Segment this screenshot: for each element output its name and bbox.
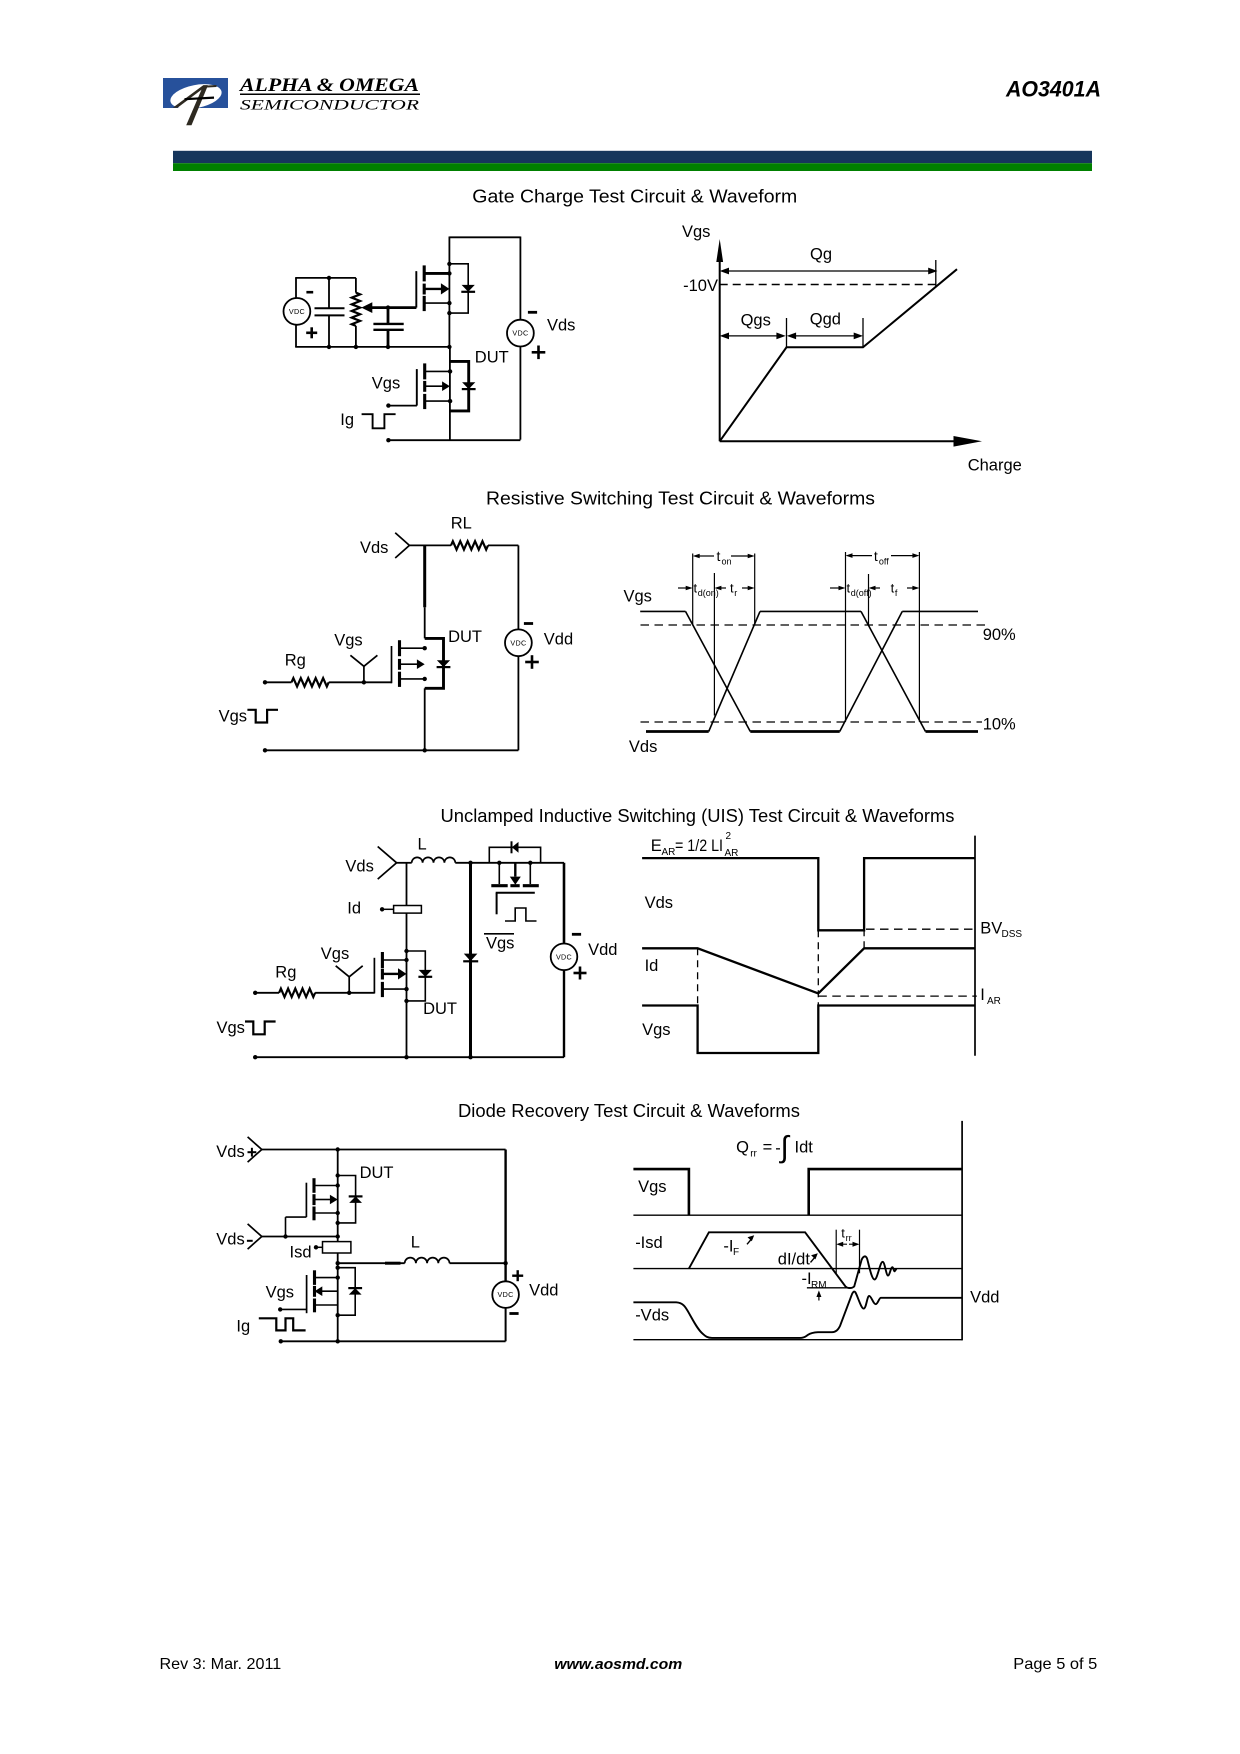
svg-text:Vgs: Vgs	[217, 1019, 245, 1037]
wire top loop fig1	[449, 236, 520, 238]
wire bottom rail fig1	[388, 439, 520, 441]
svg-text:Q: Q	[736, 1139, 749, 1157]
svg-text:Vds: Vds	[216, 1143, 244, 1161]
svg-text:Vgs: Vgs	[334, 631, 362, 649]
wire top fig2 right	[488, 544, 518, 546]
svg-text:DUT: DUT	[448, 628, 482, 646]
svg-text:Vdd: Vdd	[588, 941, 617, 959]
svg-text:Vgs: Vgs	[642, 1021, 670, 1039]
svg-text:t: t	[874, 548, 878, 564]
Vds axis fig4	[633, 1339, 962, 1341]
minus terminal of V1	[306, 291, 313, 294]
wire left rail bottom of V1	[295, 325, 297, 347]
wire gate of Q7	[280, 1308, 306, 1310]
right border fig4 waveform	[961, 1121, 963, 1341]
svg-text:DUT: DUT	[423, 1000, 457, 1018]
svg-text:Qgs: Qgs	[741, 312, 771, 330]
body diode of Q3 DUT fig2	[425, 638, 451, 688]
svg-text:-10V: -10V	[683, 277, 718, 295]
potentiometer R1	[352, 278, 360, 347]
t_r arrow	[742, 587, 749, 589]
node gate terminal Q7	[278, 1307, 282, 1311]
wire Q1 rail	[448, 237, 450, 347]
node bottom freewheel fig3	[468, 1055, 472, 1059]
wire DUT rail fig1	[449, 347, 451, 440]
inductor L fig4	[405, 1258, 450, 1264]
tick t3 fig2	[754, 554, 756, 625]
Vgs probe symbol fig3	[348, 977, 350, 993]
wire Q3 source to bottom	[424, 688, 426, 750]
svg-text:2: 2	[726, 831, 732, 842]
node Q7 diode top	[336, 1266, 340, 1270]
freewheel diode D1 branch	[463, 863, 478, 1057]
dashed marker x2 fig3	[817, 930, 819, 1005]
wire DUT drain rail fig3	[406, 863, 408, 1057]
wire left rail top of V1	[295, 278, 297, 298]
IRM arrow	[816, 1290, 821, 1300]
current probe Id box	[382, 906, 421, 914]
node bottom DUT fig3	[404, 1055, 408, 1059]
node Q4 drain lead	[404, 958, 408, 962]
Qg span arrow	[720, 268, 938, 275]
plus terminal of V1	[306, 331, 317, 334]
svg-text:d(off): d(off)	[851, 588, 872, 598]
transistor Q5 clamp switch (rotated)	[491, 863, 539, 915]
label trr	[841, 1226, 851, 1244]
svg-text:VDC: VDC	[512, 329, 528, 338]
svg-text:AO3401A: AO3401A	[1005, 77, 1101, 102]
wire top rail fig4	[262, 1149, 506, 1151]
svg-text:L: L	[418, 836, 427, 854]
Vds+ probe symbol	[248, 1137, 262, 1162]
node gate tap fig4	[283, 1234, 287, 1238]
node gate drive terminal fig3	[253, 991, 257, 995]
body diode of Q2 DUT fig1	[450, 361, 476, 411]
node Q4 diode top	[404, 949, 408, 953]
svg-text:Rg: Rg	[285, 652, 306, 670]
Vds trace fig4	[633, 1292, 962, 1338]
node Q1 diode top	[447, 262, 451, 266]
node bottom left fig4	[279, 1339, 283, 1343]
svg-text:DUT: DUT	[360, 1164, 394, 1182]
node Q3 source lead	[423, 677, 427, 681]
wire bottom rail fig3	[255, 1056, 564, 1058]
svg-text:off: off	[879, 557, 889, 567]
svg-text:Vgs: Vgs	[486, 935, 514, 953]
node Q2 source lead	[448, 399, 452, 403]
capacitor C1	[315, 278, 345, 347]
node freewheel branch top	[468, 861, 472, 865]
wire right rail lower fig1	[519, 347, 521, 440]
t_d(off) arrows	[830, 586, 880, 591]
right border fig3 waveform	[974, 836, 976, 1056]
wire right rail lower fig2	[517, 656, 519, 750]
svg-text:BV: BV	[980, 920, 1002, 938]
node Q2 drain lead	[448, 369, 452, 373]
wire right rail upper fig3	[563, 863, 566, 944]
svg-text:Charge: Charge	[968, 457, 1022, 475]
Vds trace fig3	[642, 858, 975, 930]
transistor Q1 (upper switch)	[416, 265, 449, 311]
wire drain branch thick fig2	[423, 545, 426, 607]
Id trace fig3	[642, 948, 975, 993]
Vds trace fig2	[646, 611, 978, 731]
svg-text:Rg: Rg	[275, 964, 296, 982]
t_d(on) arrows	[678, 586, 726, 591]
svg-text:DUT: DUT	[475, 349, 509, 367]
arrow -IF	[747, 1235, 754, 1244]
svg-text:E: E	[651, 837, 662, 855]
tick Qg right	[935, 260, 937, 287]
svg-text:10%: 10%	[983, 716, 1016, 734]
svg-text:Id: Id	[347, 900, 361, 918]
Vgs axis fig4	[633, 1214, 962, 1216]
node bottom terminal fig1	[386, 438, 390, 442]
svg-text:Ig: Ig	[236, 1318, 250, 1336]
plus terminal of V4	[574, 972, 587, 975]
dashed -10V level	[720, 284, 936, 286]
svg-text:Qgd: Qgd	[810, 311, 841, 329]
node bottom DUT fig2	[423, 748, 427, 752]
tick t2 fig2	[713, 573, 715, 716]
transistor Q2 DUT fig1	[417, 363, 450, 409]
svg-text:Unclamped Inductive Switching: Unclamped Inductive Switching (UIS) Test…	[441, 806, 955, 826]
body diode of Q4 DUT fig3	[407, 951, 433, 1001]
svg-text:-I: -I	[723, 1238, 733, 1256]
svg-text:-Vds: -Vds	[635, 1307, 669, 1325]
wire to Rg fig3	[255, 992, 279, 994]
node Q3 drain lead	[423, 646, 427, 650]
svg-text:DSS: DSS	[1002, 929, 1023, 940]
node middle rail left	[336, 1261, 340, 1265]
Vds- probe symbol	[248, 1224, 262, 1249]
svg-text:Vds: Vds	[629, 738, 657, 756]
svg-text:=: =	[763, 1139, 773, 1157]
wire Vds- to rail	[262, 1236, 338, 1238]
svg-text:AR: AR	[987, 996, 1001, 1007]
wire top of gate-bias box	[295, 277, 356, 279]
svg-text:rr: rr	[846, 1233, 852, 1243]
VDC source V3 Vdd fig2	[505, 629, 532, 656]
wire rail through Isd	[337, 1237, 339, 1264]
svg-text:SEMICONDUCTOR: SEMICONDUCTOR	[240, 98, 419, 114]
tick t4 fig2	[845, 552, 847, 722]
svg-text:Vds: Vds	[345, 858, 373, 876]
svg-text:Vgs: Vgs	[682, 223, 710, 241]
label -IF	[723, 1238, 739, 1259]
thick stub before L fig4	[385, 1262, 401, 1265]
Isd recovery trace fig4	[689, 1232, 897, 1288]
node Q6 diode bottom	[336, 1221, 340, 1225]
svg-text:= 1/2 LI: = 1/2 LI	[675, 837, 723, 855]
VDC source V1 (gate bias)	[284, 298, 311, 325]
svg-text:Vds: Vds	[216, 1231, 244, 1249]
dashed 90% level	[641, 624, 988, 626]
svg-text:Vdd: Vdd	[529, 1282, 558, 1300]
node mid-rail junction	[447, 345, 451, 349]
svg-text:ALPHA & OMEGA: ALPHA & OMEGA	[239, 76, 419, 96]
label EAR formula	[651, 831, 739, 859]
gate drive pulse symbol of Q5	[505, 908, 537, 921]
node gate drive terminal fig2	[263, 680, 267, 684]
Isd axis fig4	[633, 1268, 962, 1270]
inductor L fig3	[412, 857, 456, 862]
svg-text:Vds: Vds	[360, 539, 388, 557]
tick t6 fig2	[918, 552, 920, 722]
arrow dI/dt	[811, 1253, 818, 1262]
node Isd probe terminal	[314, 1245, 318, 1249]
svg-text:Vgs: Vgs	[372, 374, 400, 392]
svg-text:Diode Recovery Test Circuit &: Diode Recovery Test Circuit & Waveforms	[458, 1101, 800, 1121]
svg-text:AR: AR	[662, 847, 676, 858]
svg-text:RM: RM	[811, 1280, 827, 1291]
wire gate of Q6	[286, 1217, 307, 1236]
svg-text:Gate Charge Test Circuit & Wav: Gate Charge Test Circuit & Waveform	[472, 187, 797, 207]
dashed IAR level	[818, 995, 977, 997]
svg-text:Isd: Isd	[290, 1244, 312, 1262]
resistor Rg fig2	[292, 678, 329, 686]
t_f arrow	[907, 587, 913, 589]
minus terminal of V4	[572, 933, 581, 936]
node gate terminal fig1	[386, 403, 390, 407]
svg-text:RL: RL	[451, 515, 472, 533]
resistor Rg fig3	[279, 989, 315, 997]
svg-text:VDC: VDC	[510, 638, 526, 647]
node bottom Q7 fig4	[336, 1339, 340, 1343]
label Vds+ probe	[216, 1143, 256, 1161]
svg-text:L: L	[411, 1234, 420, 1252]
label BVDSS	[980, 920, 1022, 941]
svg-text:-Isd: -Isd	[635, 1234, 663, 1252]
Vgs pulse symbol fig3	[245, 1022, 276, 1035]
svg-text:rr: rr	[750, 1149, 757, 1160]
node bottom left fig3	[253, 1055, 257, 1059]
Vds probe symbol fig3	[378, 847, 397, 880]
transistor Q6 DUT fig4	[306, 1178, 337, 1220]
tick Qgs	[786, 318, 788, 347]
wire bottom rail fig2	[265, 749, 518, 751]
node bottom left fig2	[263, 748, 267, 752]
svg-text:90%: 90%	[983, 626, 1016, 644]
Vgs pulse symbol fig2	[247, 710, 278, 723]
gate charge curve	[720, 269, 957, 441]
node Vgs probe fig3	[347, 991, 351, 995]
node Q6 diode top	[336, 1173, 340, 1177]
transistor Q7 lower switch fig4	[307, 1270, 338, 1313]
VDC source V5 Vdd fig4	[492, 1281, 519, 1308]
plus terminal of V5	[512, 1274, 523, 1276]
svg-text:on: on	[722, 557, 732, 567]
wire DUT rail fig4	[337, 1150, 339, 1237]
dashed marker x3 fig3	[863, 929, 865, 948]
wire probe to L	[397, 862, 412, 864]
node Vds- rail junction	[336, 1234, 340, 1238]
wire right rail upper fig2	[517, 545, 519, 629]
node junction top of C1	[327, 276, 331, 280]
minus terminal of V3	[524, 622, 533, 625]
wire gate bar feed Q1	[415, 271, 417, 307]
current probe Isd box	[316, 1242, 351, 1253]
transistor Q3 DUT fig2	[392, 640, 425, 687]
transistor Q4 DUT fig3	[374, 952, 406, 997]
Ig double pulse symbol	[259, 1318, 306, 1330]
banner bar navy	[173, 151, 1092, 163]
node Q5 right lead	[528, 861, 532, 865]
Vgs trace fig4	[633, 1169, 962, 1215]
node wiper junction	[386, 305, 390, 309]
node Q4 source lead	[404, 987, 408, 991]
dashed BVDSS level	[866, 928, 973, 930]
svg-text:Vdd: Vdd	[544, 630, 573, 648]
svg-text:www.aosmd.com: www.aosmd.com	[554, 1656, 682, 1673]
node Q1 source lead	[447, 301, 451, 305]
IRM level line	[807, 1287, 851, 1289]
label Vds- probe	[216, 1231, 252, 1249]
svg-text:Vgs: Vgs	[624, 588, 652, 606]
tick t5 fig2	[868, 574, 870, 625]
wire drain branch thin fig2	[424, 607, 426, 638]
wire right rail upper fig4	[504, 1150, 506, 1282]
wire L to right rail	[450, 1262, 506, 1264]
svg-text:Qg: Qg	[810, 246, 832, 264]
minus terminal of V2	[528, 311, 537, 314]
node Q4 diode bottom	[404, 999, 408, 1003]
svg-text:VDC: VDC	[556, 952, 572, 961]
VDC source V4 Vdd fig3	[551, 944, 578, 971]
tick t1 fig2	[692, 554, 694, 625]
resistor RL	[451, 541, 488, 549]
wire top fig2 left	[409, 544, 451, 546]
Vds probe symbol fig2	[395, 533, 409, 558]
capacitor C2	[373, 308, 403, 347]
t_on span arrows	[693, 554, 755, 559]
node Id probe terminal	[380, 907, 384, 911]
wire right rail upper fig1	[519, 237, 521, 320]
svg-text:VDC: VDC	[498, 1290, 514, 1299]
wire middle rail fig4	[338, 1262, 405, 1264]
svg-text:r: r	[734, 588, 737, 598]
svg-text:Vgs: Vgs	[321, 945, 349, 963]
label IAR	[980, 986, 1001, 1007]
svg-text:Idt: Idt	[795, 1139, 814, 1157]
wire bottom rail fig4	[281, 1340, 506, 1342]
wire gate of Q2	[388, 369, 417, 405]
node Q7 drain lead	[336, 1275, 340, 1279]
wire L to clamp	[455, 862, 564, 864]
node Vgs probe fig2	[362, 680, 366, 684]
tick trr left	[835, 1230, 837, 1274]
tick Qgd	[862, 318, 864, 347]
svg-text:F: F	[733, 1247, 739, 1258]
dashed 10% level	[641, 721, 983, 723]
label Vgs-bar of Q5	[484, 934, 514, 953]
svg-text:Page 5 of 5: Page 5 of 5	[1013, 1656, 1097, 1673]
wire bottom of gate-bias box	[295, 346, 449, 348]
Vgs probe symbol fig2	[363, 666, 365, 682]
svg-text:Rev 3: Mar. 2011: Rev 3: Mar. 2011	[160, 1656, 282, 1673]
trr span arrows	[836, 1242, 859, 1247]
t_off span arrows	[846, 553, 920, 558]
plus terminal of V3	[525, 661, 539, 664]
svg-text:∫: ∫	[779, 1131, 791, 1164]
svg-text:t: t	[717, 548, 721, 564]
svg-text:Vds: Vds	[547, 317, 575, 335]
plus terminal of V2	[532, 351, 546, 354]
wiper arrow of R1	[361, 302, 416, 313]
node Q6 drain lead	[336, 1183, 340, 1187]
svg-text:VDC: VDC	[289, 307, 305, 316]
wire right rail lower fig4	[505, 1308, 507, 1341]
tick trr right	[859, 1230, 861, 1274]
node Q5 left lead	[497, 861, 501, 865]
minus terminal of V5	[509, 1312, 518, 1315]
node DUT drain top fig4	[336, 1147, 340, 1151]
Vgs trace fig2	[640, 611, 978, 731]
svg-text:Vgs: Vgs	[219, 708, 247, 726]
node C1 bottom	[327, 345, 331, 349]
body diode of Q7 lower switch fig4	[338, 1268, 362, 1316]
company logo mark	[163, 78, 228, 125]
svg-text:Vgs: Vgs	[266, 1284, 294, 1302]
svg-text:Vgs: Vgs	[638, 1178, 666, 1196]
svg-text:Vds: Vds	[645, 894, 673, 912]
svg-text:dI/dt: dI/dt	[778, 1251, 811, 1269]
wire to Rg	[265, 681, 292, 683]
label -IRM	[802, 1270, 827, 1291]
wire Rg to gate	[329, 681, 392, 683]
Qgd span arrow	[787, 333, 863, 340]
body diode of Q1 (upper switch)	[449, 264, 475, 313]
node Q1 diode bottom	[447, 311, 451, 315]
Ig pulse symbol	[362, 414, 396, 428]
svg-text:I: I	[980, 986, 985, 1004]
svg-text:Ig: Ig	[340, 411, 354, 429]
node Q6 source lead	[336, 1211, 340, 1215]
node C2 bottom	[386, 345, 390, 349]
wire rail to lower FET	[337, 1263, 339, 1341]
node R1 bottom	[354, 345, 358, 349]
svg-text:Vdd: Vdd	[970, 1289, 999, 1307]
Vgs axis vertical fig1	[716, 239, 723, 441]
dashed marker x1 fig3	[697, 948, 699, 1005]
wire right rail lower fig3	[563, 970, 565, 1057]
VDC source V2 Vds supply	[507, 320, 534, 347]
svg-text:Resistive Switching Test Circu: Resistive Switching Test Circuit & Wavef…	[486, 489, 875, 509]
Vgs trace fig3	[642, 1006, 975, 1054]
svg-text:d(on): d(on)	[698, 588, 719, 598]
body diode of Q6 DUT fig4	[338, 1176, 363, 1223]
banner bar green	[173, 163, 1092, 171]
Charge axis horizontal fig1	[720, 436, 982, 447]
body diode of Q5 (bypass)	[489, 841, 540, 863]
svg-text:Id: Id	[645, 957, 659, 975]
wire Rg to gate fig3	[315, 992, 375, 994]
Qgs span arrow	[720, 333, 786, 340]
node Q1 drain lead	[447, 271, 451, 275]
node middle rail right	[503, 1261, 507, 1265]
node Q7 diode bottom	[336, 1313, 340, 1317]
label Qrr formula	[736, 1131, 813, 1164]
